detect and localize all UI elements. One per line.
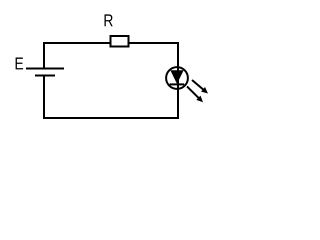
label E xyxy=(16,57,24,69)
battery E xyxy=(26,69,64,76)
wire bottom segment xyxy=(43,117,179,119)
wire top-left segment xyxy=(44,42,110,44)
wire left lower segment xyxy=(43,76,45,120)
LED light arrow 2 xyxy=(187,86,203,102)
wire right segment xyxy=(177,42,179,118)
LED D1 xyxy=(166,67,188,89)
label R xyxy=(105,14,113,26)
LED light arrow 1 xyxy=(192,80,208,94)
wire top-right segment xyxy=(129,42,178,44)
resistor R xyxy=(111,36,129,47)
wire left upper segment xyxy=(43,42,45,68)
